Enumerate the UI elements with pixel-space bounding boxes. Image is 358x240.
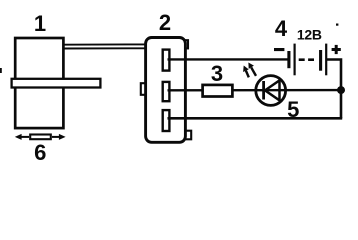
arrow left (movement of 6) <box>15 134 29 140</box>
svg-text:6: 6 <box>34 140 46 165</box>
LED light arrow 2 <box>248 63 256 76</box>
wire battery plus down right side <box>327 60 341 119</box>
svg-text:3: 3 <box>211 61 223 86</box>
battery minus sign <box>274 48 284 51</box>
wire pin2 row to junction <box>168 89 342 92</box>
junction node dot <box>337 86 345 94</box>
battery plate long (cell 1 positive) <box>294 44 296 76</box>
wire pin3 row (bottom return) <box>168 117 343 120</box>
svg-text:12В: 12В <box>297 26 322 42</box>
sensor 1 body <box>15 38 63 128</box>
LED light arrow 1 <box>243 66 249 78</box>
pin slot 1 <box>163 50 170 71</box>
LED 5 circle <box>256 76 286 106</box>
speck above battery <box>336 24 338 26</box>
wire pin1 to battery minus <box>168 58 288 60</box>
pin slot 3 <box>163 110 170 131</box>
battery dash 1 <box>299 58 305 61</box>
svg-text:4: 4 <box>275 16 288 41</box>
sensor 1 vane bar <box>12 79 101 88</box>
magnet 6 <box>30 135 51 140</box>
svg-text:2: 2 <box>159 10 171 35</box>
arrow right (movement of 6) <box>52 134 66 140</box>
cable from sensor 1 to connector 2 <box>61 44 146 48</box>
connector 2 left tab <box>141 83 148 95</box>
speck at left edge <box>0 68 2 73</box>
battery plus sign <box>332 45 341 54</box>
LED 5 cathode bar <box>262 81 265 100</box>
resistor 3 <box>203 85 233 97</box>
LED 5 triangle <box>265 80 280 100</box>
connector 2 right ear top <box>180 40 188 48</box>
pin slot 2 <box>163 82 170 101</box>
battery plate short (cell 1 negative) <box>287 51 290 68</box>
connector 2 right ear bottom <box>180 131 191 140</box>
connector 2 housing <box>146 38 186 143</box>
svg-text:5: 5 <box>287 97 299 122</box>
battery plate short (cell 2 negative) <box>319 50 322 71</box>
battery plate long (cell 2 positive) <box>325 44 327 76</box>
svg-text:1: 1 <box>34 11 46 36</box>
battery dash 2 <box>308 58 314 61</box>
